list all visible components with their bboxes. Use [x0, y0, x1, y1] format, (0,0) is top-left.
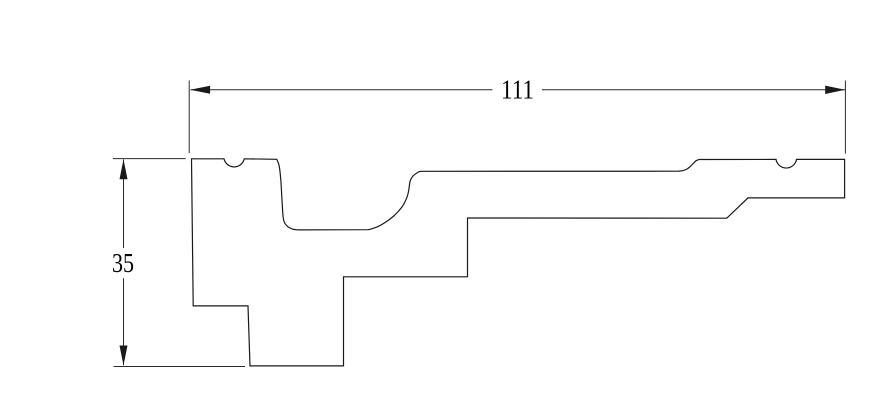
dimension 35: dimension line top segment — [123, 160, 125, 249]
profile outline (cross-section) — [192, 159, 845, 366]
dimension 111: left arrowhead — [190, 86, 210, 94]
dimension 35: top extension line — [113, 158, 186, 160]
dimension 111: dimension line left segment — [191, 89, 493, 91]
dimension 35: dimension line bottom segment — [123, 278, 125, 365]
dimension 35: top arrowhead — [120, 159, 128, 179]
svg-text:111: 111 — [501, 74, 534, 104]
dimension 111: dimension line right segment — [542, 89, 845, 91]
dimension 111: left extension line — [188, 81, 190, 154]
dimension 35: bottom arrowhead — [120, 346, 128, 366]
dimension 111: right extension line — [844, 81, 846, 154]
dimension 35: bottom extension line — [114, 366, 246, 368]
svg-text:35: 35 — [112, 248, 134, 278]
dimension 111: right arrowhead — [825, 86, 845, 94]
